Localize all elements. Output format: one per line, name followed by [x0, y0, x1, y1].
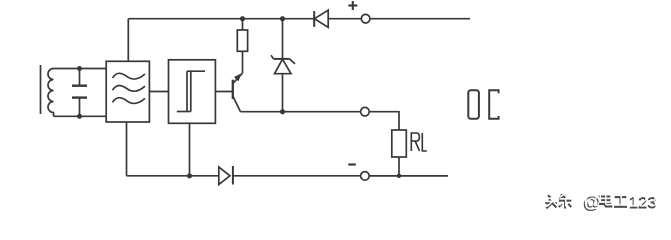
- wire mid right to RL: [369, 112, 399, 130]
- Schmitt trigger block U2: [169, 60, 216, 124]
- minus sign: [348, 163, 356, 165]
- plus sign: [348, 1, 357, 10]
- filter block U1: [106, 61, 149, 122]
- node dot R1 top: [240, 16, 245, 21]
- U1 wave symbol: [113, 73, 146, 103]
- svg-text:123: 123: [630, 191, 658, 210]
- watermark toutiao: [545, 191, 657, 213]
- transformer core bar: [40, 65, 42, 114]
- resistor R1: [237, 30, 247, 51]
- terminal minus: [361, 172, 370, 181]
- wire R1 top to top rail: [242, 19, 244, 30]
- inductor coil L1: [48, 69, 54, 117]
- svg-text:@: @: [584, 191, 602, 211]
- wire U2 bottom to bottom rail: [189, 123, 191, 176]
- diode VD2 bottom: [219, 166, 233, 185]
- wire VD1 to plus terminal: [328, 18, 361, 20]
- transistor Q1: [233, 73, 243, 112]
- bottom rail wire mid: [233, 175, 361, 177]
- wire U2 to base: [215, 91, 232, 93]
- diode VD1 top: [314, 10, 328, 27]
- node dot zener bottom: [280, 109, 285, 114]
- wire coil top to box1: [54, 68, 107, 70]
- wire emitter to resistor R1: [242, 51, 244, 73]
- wire U1 bottom to bottom rail: [126, 122, 128, 176]
- node dot bottom rail: [187, 173, 192, 178]
- label RL: [411, 133, 427, 151]
- capacitor C1: [72, 69, 87, 117]
- U2 hysteresis symbol: [177, 71, 205, 111]
- terminal plus: [361, 14, 370, 23]
- wire U1 top to top rail: [127, 19, 129, 62]
- bottom rail wire right: [369, 175, 448, 177]
- wire RL bottom: [398, 157, 400, 176]
- wire zener bottom: [282, 74, 284, 112]
- wire top right: [370, 18, 470, 20]
- node dot zener top: [280, 16, 285, 21]
- bottom rail wire left: [127, 175, 219, 177]
- top rail wire: [128, 18, 313, 20]
- wire coil bottom to box1: [54, 115, 107, 117]
- zener diode VZ: [271, 55, 295, 73]
- node dot RL bottom: [397, 174, 401, 178]
- middle rail wire: [241, 111, 361, 113]
- label DC: [468, 90, 498, 119]
- terminal mid: [361, 107, 370, 116]
- wire U1 to U2: [149, 91, 168, 93]
- node dot cap top: [77, 66, 82, 71]
- resistor RL: [392, 130, 407, 157]
- node dot cap bottom: [77, 114, 82, 119]
- wire zener branch top: [282, 19, 284, 59]
